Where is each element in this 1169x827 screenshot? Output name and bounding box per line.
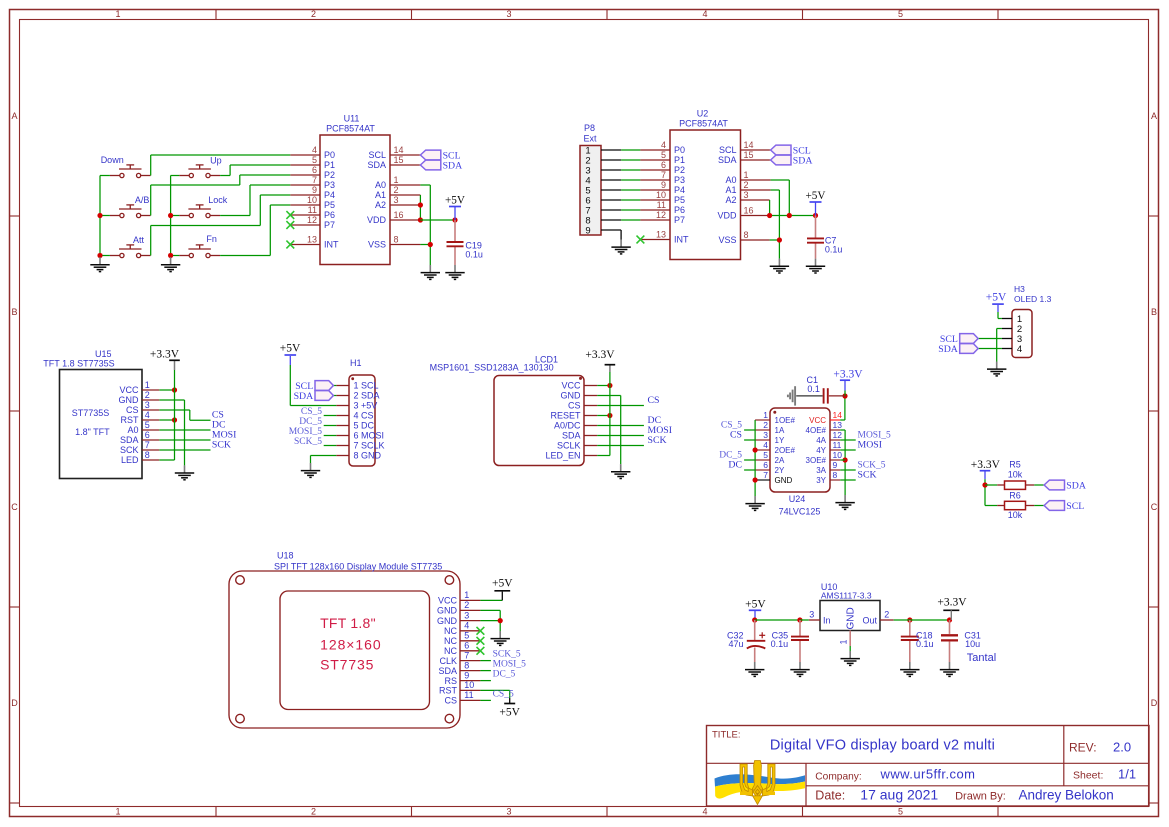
svg-text:4: 4 <box>661 140 666 150</box>
svg-text:9: 9 <box>464 670 469 680</box>
svg-text:1: 1 <box>839 639 849 644</box>
svg-text:4: 4 <box>464 621 469 631</box>
svg-text:Lock: Lock <box>208 195 228 205</box>
svg-text:SDA: SDA <box>562 431 581 441</box>
svg-text:A1: A1 <box>375 190 386 200</box>
svg-text:ST7735: ST7735 <box>320 656 374 672</box>
svg-text:CS: CS <box>730 430 742 441</box>
svg-text:1: 1 <box>744 170 749 180</box>
svg-text:A2: A2 <box>375 200 386 210</box>
svg-text:10: 10 <box>464 680 474 690</box>
svg-text:LED: LED <box>121 455 139 465</box>
svg-text:Drawn By:: Drawn By: <box>955 791 1006 803</box>
svg-text:OLED 1.3: OLED 1.3 <box>1014 294 1052 304</box>
svg-text:A1: A1 <box>725 185 736 195</box>
svg-text:9: 9 <box>833 460 838 470</box>
svg-text:P5: P5 <box>674 195 685 205</box>
svg-text:1/1: 1/1 <box>1118 767 1136 782</box>
svg-text:14: 14 <box>394 145 404 155</box>
svg-text:P6: P6 <box>324 210 335 220</box>
svg-text:7: 7 <box>464 650 469 660</box>
svg-text:A: A <box>1151 111 1157 121</box>
svg-text:RS: RS <box>444 676 457 686</box>
svg-text:14: 14 <box>833 410 843 420</box>
svg-text:U18: U18 <box>277 551 294 561</box>
svg-text:CS_5: CS_5 <box>493 689 514 699</box>
svg-text:U2: U2 <box>697 109 709 119</box>
svg-text:GND: GND <box>119 395 140 405</box>
svg-text:B: B <box>1151 307 1157 317</box>
svg-text:NC: NC <box>444 636 457 646</box>
svg-text:11: 11 <box>464 690 473 700</box>
svg-text:VCC: VCC <box>438 596 458 606</box>
svg-text:B: B <box>11 307 17 317</box>
svg-text:NC: NC <box>444 626 457 636</box>
svg-text:TITLE:: TITLE: <box>712 730 741 741</box>
svg-text:SDA: SDA <box>443 160 463 171</box>
svg-text:GND: GND <box>561 391 582 401</box>
svg-text:1: 1 <box>145 380 150 390</box>
svg-text:8: 8 <box>394 235 399 245</box>
svg-text:GND: GND <box>437 616 458 626</box>
svg-text:SCK_5: SCK_5 <box>294 437 322 447</box>
svg-text:11: 11 <box>833 440 842 450</box>
svg-text:2: 2 <box>744 180 749 190</box>
svg-text:4: 4 <box>1017 344 1022 355</box>
svg-text:74LVC125: 74LVC125 <box>779 507 821 517</box>
svg-text:RST: RST <box>439 686 458 696</box>
svg-text:Company:: Company: <box>815 771 861 782</box>
svg-text:P1: P1 <box>324 160 335 170</box>
svg-text:2Y: 2Y <box>775 466 785 475</box>
svg-text:P7: P7 <box>674 215 685 225</box>
svg-text:2: 2 <box>394 185 399 195</box>
svg-text:ST7735S: ST7735S <box>72 408 110 418</box>
svg-text:D: D <box>11 698 18 708</box>
svg-text:Down: Down <box>101 155 124 165</box>
svg-text:6: 6 <box>661 160 666 170</box>
svg-text:5: 5 <box>312 155 317 165</box>
svg-text:10: 10 <box>833 450 843 460</box>
svg-text:12: 12 <box>656 210 666 220</box>
svg-text:GND: GND <box>437 606 458 616</box>
svg-text:U11: U11 <box>344 114 360 124</box>
svg-text:+5V: +5V <box>499 707 520 719</box>
svg-text:4A: 4A <box>816 436 826 445</box>
svg-text:SCK: SCK <box>120 445 139 455</box>
svg-text:SCL: SCL <box>368 150 386 160</box>
svg-text:3: 3 <box>763 430 768 440</box>
svg-text:5: 5 <box>145 420 150 430</box>
svg-text:CS_5: CS_5 <box>301 407 322 417</box>
svg-text:3: 3 <box>506 9 511 19</box>
svg-text:SCL: SCL <box>1066 501 1084 512</box>
svg-text:VSS: VSS <box>368 240 386 250</box>
svg-text:SDA: SDA <box>367 160 386 170</box>
svg-text:1 SCL: 1 SCL <box>354 381 379 391</box>
svg-text:1Y: 1Y <box>775 436 785 445</box>
svg-text:16: 16 <box>394 210 404 220</box>
svg-text:SCK: SCK <box>212 440 231 451</box>
svg-text:Up: Up <box>210 156 222 166</box>
svg-text:P5: P5 <box>324 200 335 210</box>
svg-text:H3: H3 <box>1014 284 1025 294</box>
svg-text:VDD: VDD <box>717 211 737 221</box>
svg-text:VCC: VCC <box>561 381 581 391</box>
svg-text:SDA: SDA <box>438 666 457 676</box>
svg-text:8: 8 <box>744 230 749 240</box>
svg-text:11: 11 <box>308 205 317 215</box>
svg-text:U15: U15 <box>95 349 112 359</box>
svg-text:6: 6 <box>763 460 768 470</box>
svg-text:5 DC: 5 DC <box>354 421 375 431</box>
svg-text:+5V: +5V <box>492 577 513 589</box>
svg-text:+3.3V: +3.3V <box>971 459 1001 471</box>
svg-text:MOSI_5: MOSI_5 <box>289 427 323 437</box>
svg-text:+3.3V: +3.3V <box>833 368 863 380</box>
svg-text:3: 3 <box>744 190 749 200</box>
svg-text:3A: 3A <box>816 466 826 475</box>
svg-text:2: 2 <box>464 600 469 610</box>
svg-text:SDA: SDA <box>294 391 314 402</box>
svg-text:R5: R5 <box>1009 460 1021 470</box>
svg-text:GND: GND <box>846 607 857 629</box>
svg-text:SDA: SDA <box>793 155 813 166</box>
svg-text:VSS: VSS <box>718 235 736 245</box>
svg-text:R6: R6 <box>1009 490 1021 500</box>
svg-text:+5V: +5V <box>745 598 766 610</box>
svg-text:16: 16 <box>744 206 754 216</box>
svg-text:SCK: SCK <box>858 470 877 481</box>
svg-text:TFT 1.8": TFT 1.8" <box>320 615 376 631</box>
svg-text:0.1u: 0.1u <box>916 639 934 649</box>
svg-text:A2: A2 <box>725 195 736 205</box>
svg-text:+5V: +5V <box>445 195 465 207</box>
svg-text:13: 13 <box>833 420 843 430</box>
svg-text:DC: DC <box>728 460 742 471</box>
svg-text:VCC: VCC <box>809 416 826 425</box>
svg-text:9: 9 <box>312 185 317 195</box>
svg-text:TFT 1.8 ST7735S: TFT 1.8 ST7735S <box>43 359 114 369</box>
svg-text:CLK: CLK <box>439 656 457 666</box>
svg-text:7: 7 <box>312 175 317 185</box>
svg-text:4 CS: 4 CS <box>354 411 374 421</box>
svg-text:3: 3 <box>145 400 150 410</box>
svg-text:2.0: 2.0 <box>1113 740 1131 755</box>
svg-text:U24: U24 <box>789 494 806 504</box>
svg-text:1: 1 <box>115 806 120 816</box>
svg-text:9: 9 <box>585 225 590 236</box>
svg-text:P8: P8 <box>584 123 595 133</box>
svg-text:SDA: SDA <box>120 435 139 445</box>
svg-text:10k: 10k <box>1008 510 1023 520</box>
svg-text:2: 2 <box>884 610 889 620</box>
svg-text:+5V: +5V <box>280 343 301 355</box>
svg-text:+5V: +5V <box>806 190 826 202</box>
svg-text:P3: P3 <box>324 180 335 190</box>
svg-text:2: 2 <box>145 390 150 400</box>
svg-text:P4: P4 <box>674 185 685 195</box>
svg-text:0.1u: 0.1u <box>771 639 789 649</box>
svg-text:A0: A0 <box>127 425 138 435</box>
svg-text:7: 7 <box>145 440 150 450</box>
svg-text:Ext: Ext <box>584 133 598 143</box>
svg-text:CS: CS <box>568 401 581 411</box>
svg-text:INT: INT <box>324 240 339 250</box>
svg-text:1.8" TFT: 1.8" TFT <box>75 427 110 437</box>
svg-text:15: 15 <box>394 155 404 165</box>
svg-text:4: 4 <box>702 806 707 816</box>
svg-text:A0/DC: A0/DC <box>554 421 581 431</box>
svg-text:5: 5 <box>661 150 666 160</box>
svg-text:P2: P2 <box>674 165 685 175</box>
svg-text:A/B: A/B <box>135 195 150 205</box>
svg-text:P0: P0 <box>324 150 335 160</box>
svg-text:C: C <box>11 502 18 512</box>
svg-text:0.1u: 0.1u <box>465 250 483 260</box>
svg-text:13: 13 <box>656 230 666 240</box>
svg-text:4: 4 <box>702 9 707 19</box>
svg-text:5: 5 <box>763 450 768 460</box>
svg-text:8 GND: 8 GND <box>354 451 382 461</box>
svg-text:+3.3V: +3.3V <box>150 349 180 361</box>
svg-text:7: 7 <box>661 170 666 180</box>
svg-text:A: A <box>11 111 17 121</box>
svg-text:INT: INT <box>674 235 689 245</box>
svg-text:VDD: VDD <box>367 215 387 225</box>
svg-text:10: 10 <box>656 190 666 200</box>
svg-text:10k: 10k <box>1008 469 1023 479</box>
svg-text:PCF8574AT: PCF8574AT <box>326 124 375 134</box>
svg-text:MSP1601_SSD1283A_130130: MSP1601_SSD1283A_130130 <box>430 362 554 372</box>
svg-text:17 aug 2021: 17 aug 2021 <box>860 787 938 803</box>
svg-text:14: 14 <box>744 140 754 150</box>
svg-text:SCK: SCK <box>648 435 667 446</box>
svg-text:SDA: SDA <box>938 344 958 355</box>
svg-text:GND: GND <box>775 476 793 485</box>
svg-text:Out: Out <box>862 615 877 625</box>
svg-text:Fn: Fn <box>206 234 217 244</box>
svg-text:CS: CS <box>126 405 139 415</box>
svg-text:VCC: VCC <box>119 385 139 395</box>
svg-text:P7: P7 <box>324 220 335 230</box>
svg-text:3: 3 <box>394 195 399 205</box>
svg-text:SCL: SCL <box>719 145 737 155</box>
svg-text:4OE#: 4OE# <box>806 426 827 435</box>
svg-text:NC: NC <box>444 646 457 656</box>
svg-text:1A: 1A <box>775 426 785 435</box>
svg-text:4: 4 <box>763 440 768 450</box>
svg-text:P4: P4 <box>324 190 335 200</box>
svg-text:5: 5 <box>464 631 469 641</box>
svg-text:P3: P3 <box>674 175 685 185</box>
svg-text:PCF8574AT: PCF8574AT <box>679 119 728 129</box>
svg-text:SDA: SDA <box>1066 480 1086 491</box>
svg-text:10u: 10u <box>965 639 980 649</box>
svg-text:A0: A0 <box>375 180 386 190</box>
svg-text:MOSI_5: MOSI_5 <box>493 660 527 670</box>
svg-text:In: In <box>823 615 831 625</box>
svg-text:Digital VFO display board v2 m: Digital VFO display board v2 multi <box>770 738 995 754</box>
svg-text:Sheet:: Sheet: <box>1073 770 1103 782</box>
svg-text:D: D <box>1151 698 1158 708</box>
svg-text:Date:: Date: <box>815 789 845 803</box>
svg-text:SCLK: SCLK <box>557 441 581 451</box>
svg-text:1: 1 <box>115 9 120 19</box>
svg-text:Andrey Belokon: Andrey Belokon <box>1019 788 1114 803</box>
svg-text:+3.3V: +3.3V <box>585 349 615 361</box>
svg-text:5: 5 <box>898 9 903 19</box>
svg-text:REV:: REV: <box>1069 741 1097 755</box>
svg-text:RESET: RESET <box>550 411 581 421</box>
svg-text:H1: H1 <box>350 358 362 368</box>
svg-text:3Y: 3Y <box>816 476 826 485</box>
svg-text:6: 6 <box>464 641 469 651</box>
svg-text:2A: 2A <box>775 456 785 465</box>
svg-text:2: 2 <box>311 806 316 816</box>
svg-text:1: 1 <box>763 410 768 420</box>
svg-text:+3.3V: +3.3V <box>937 596 967 608</box>
svg-text:7 SCLK: 7 SCLK <box>354 441 385 451</box>
svg-text:3: 3 <box>506 806 511 816</box>
svg-text:DC_5: DC_5 <box>493 670 516 680</box>
svg-text:RST: RST <box>121 415 140 425</box>
svg-text:12: 12 <box>833 430 843 440</box>
svg-text:Tantal: Tantal <box>967 652 996 664</box>
svg-text:11: 11 <box>657 200 666 210</box>
svg-text:5: 5 <box>898 806 903 816</box>
svg-text:3: 3 <box>809 610 814 620</box>
svg-text:128×160: 128×160 <box>320 636 382 652</box>
svg-text:9: 9 <box>661 180 666 190</box>
svg-text:www.ur5ffr.com: www.ur5ffr.com <box>880 767 976 782</box>
svg-text:47u: 47u <box>728 639 743 649</box>
svg-text:6: 6 <box>145 430 150 440</box>
svg-text:C: C <box>1151 502 1158 512</box>
svg-text:Att: Att <box>133 235 145 245</box>
svg-text:CS: CS <box>444 696 457 706</box>
svg-text:SCK_5: SCK_5 <box>493 650 521 660</box>
svg-text:P0: P0 <box>674 145 685 155</box>
svg-text:8: 8 <box>464 660 469 670</box>
svg-text:13: 13 <box>307 235 317 245</box>
svg-text:10: 10 <box>307 195 317 205</box>
svg-text:LED_EN: LED_EN <box>545 451 580 461</box>
svg-text:3 +5V: 3 +5V <box>354 401 378 411</box>
svg-text:SDA: SDA <box>718 155 737 165</box>
svg-text:6 MOSI: 6 MOSI <box>354 431 385 441</box>
svg-text:2: 2 <box>763 420 768 430</box>
svg-text:1OE#: 1OE# <box>775 416 796 425</box>
svg-text:7: 7 <box>763 470 768 480</box>
svg-text:0.1u: 0.1u <box>825 245 843 255</box>
svg-text:2OE#: 2OE# <box>775 446 796 455</box>
svg-text:4Y: 4Y <box>816 446 826 455</box>
svg-text:P2: P2 <box>324 170 335 180</box>
svg-text:3: 3 <box>464 610 469 620</box>
svg-text:A0: A0 <box>725 175 736 185</box>
svg-text:P1: P1 <box>674 155 685 165</box>
svg-text:0.1: 0.1 <box>807 384 820 394</box>
svg-text:AMS1117-3.3: AMS1117-3.3 <box>821 590 872 600</box>
svg-text:8: 8 <box>833 470 838 480</box>
svg-text:P6: P6 <box>674 205 685 215</box>
svg-text:CS: CS <box>648 395 660 406</box>
svg-text:15: 15 <box>744 150 754 160</box>
svg-text:4: 4 <box>312 145 317 155</box>
svg-text:DC_5: DC_5 <box>299 417 322 427</box>
svg-text:6: 6 <box>312 165 317 175</box>
svg-text:1: 1 <box>464 590 469 600</box>
svg-text:8: 8 <box>145 450 150 460</box>
svg-text:2: 2 <box>311 9 316 19</box>
svg-text:4: 4 <box>145 410 150 420</box>
svg-text:SPI TFT 128x160 Display Module: SPI TFT 128x160 Display Module ST7735 <box>274 561 442 571</box>
svg-text:+5V: +5V <box>986 292 1007 304</box>
svg-text:12: 12 <box>307 215 317 225</box>
svg-text:2 SDA: 2 SDA <box>354 391 380 401</box>
svg-text:MOSI: MOSI <box>858 440 883 451</box>
svg-text:3OE#: 3OE# <box>806 456 827 465</box>
svg-text:1: 1 <box>394 175 399 185</box>
